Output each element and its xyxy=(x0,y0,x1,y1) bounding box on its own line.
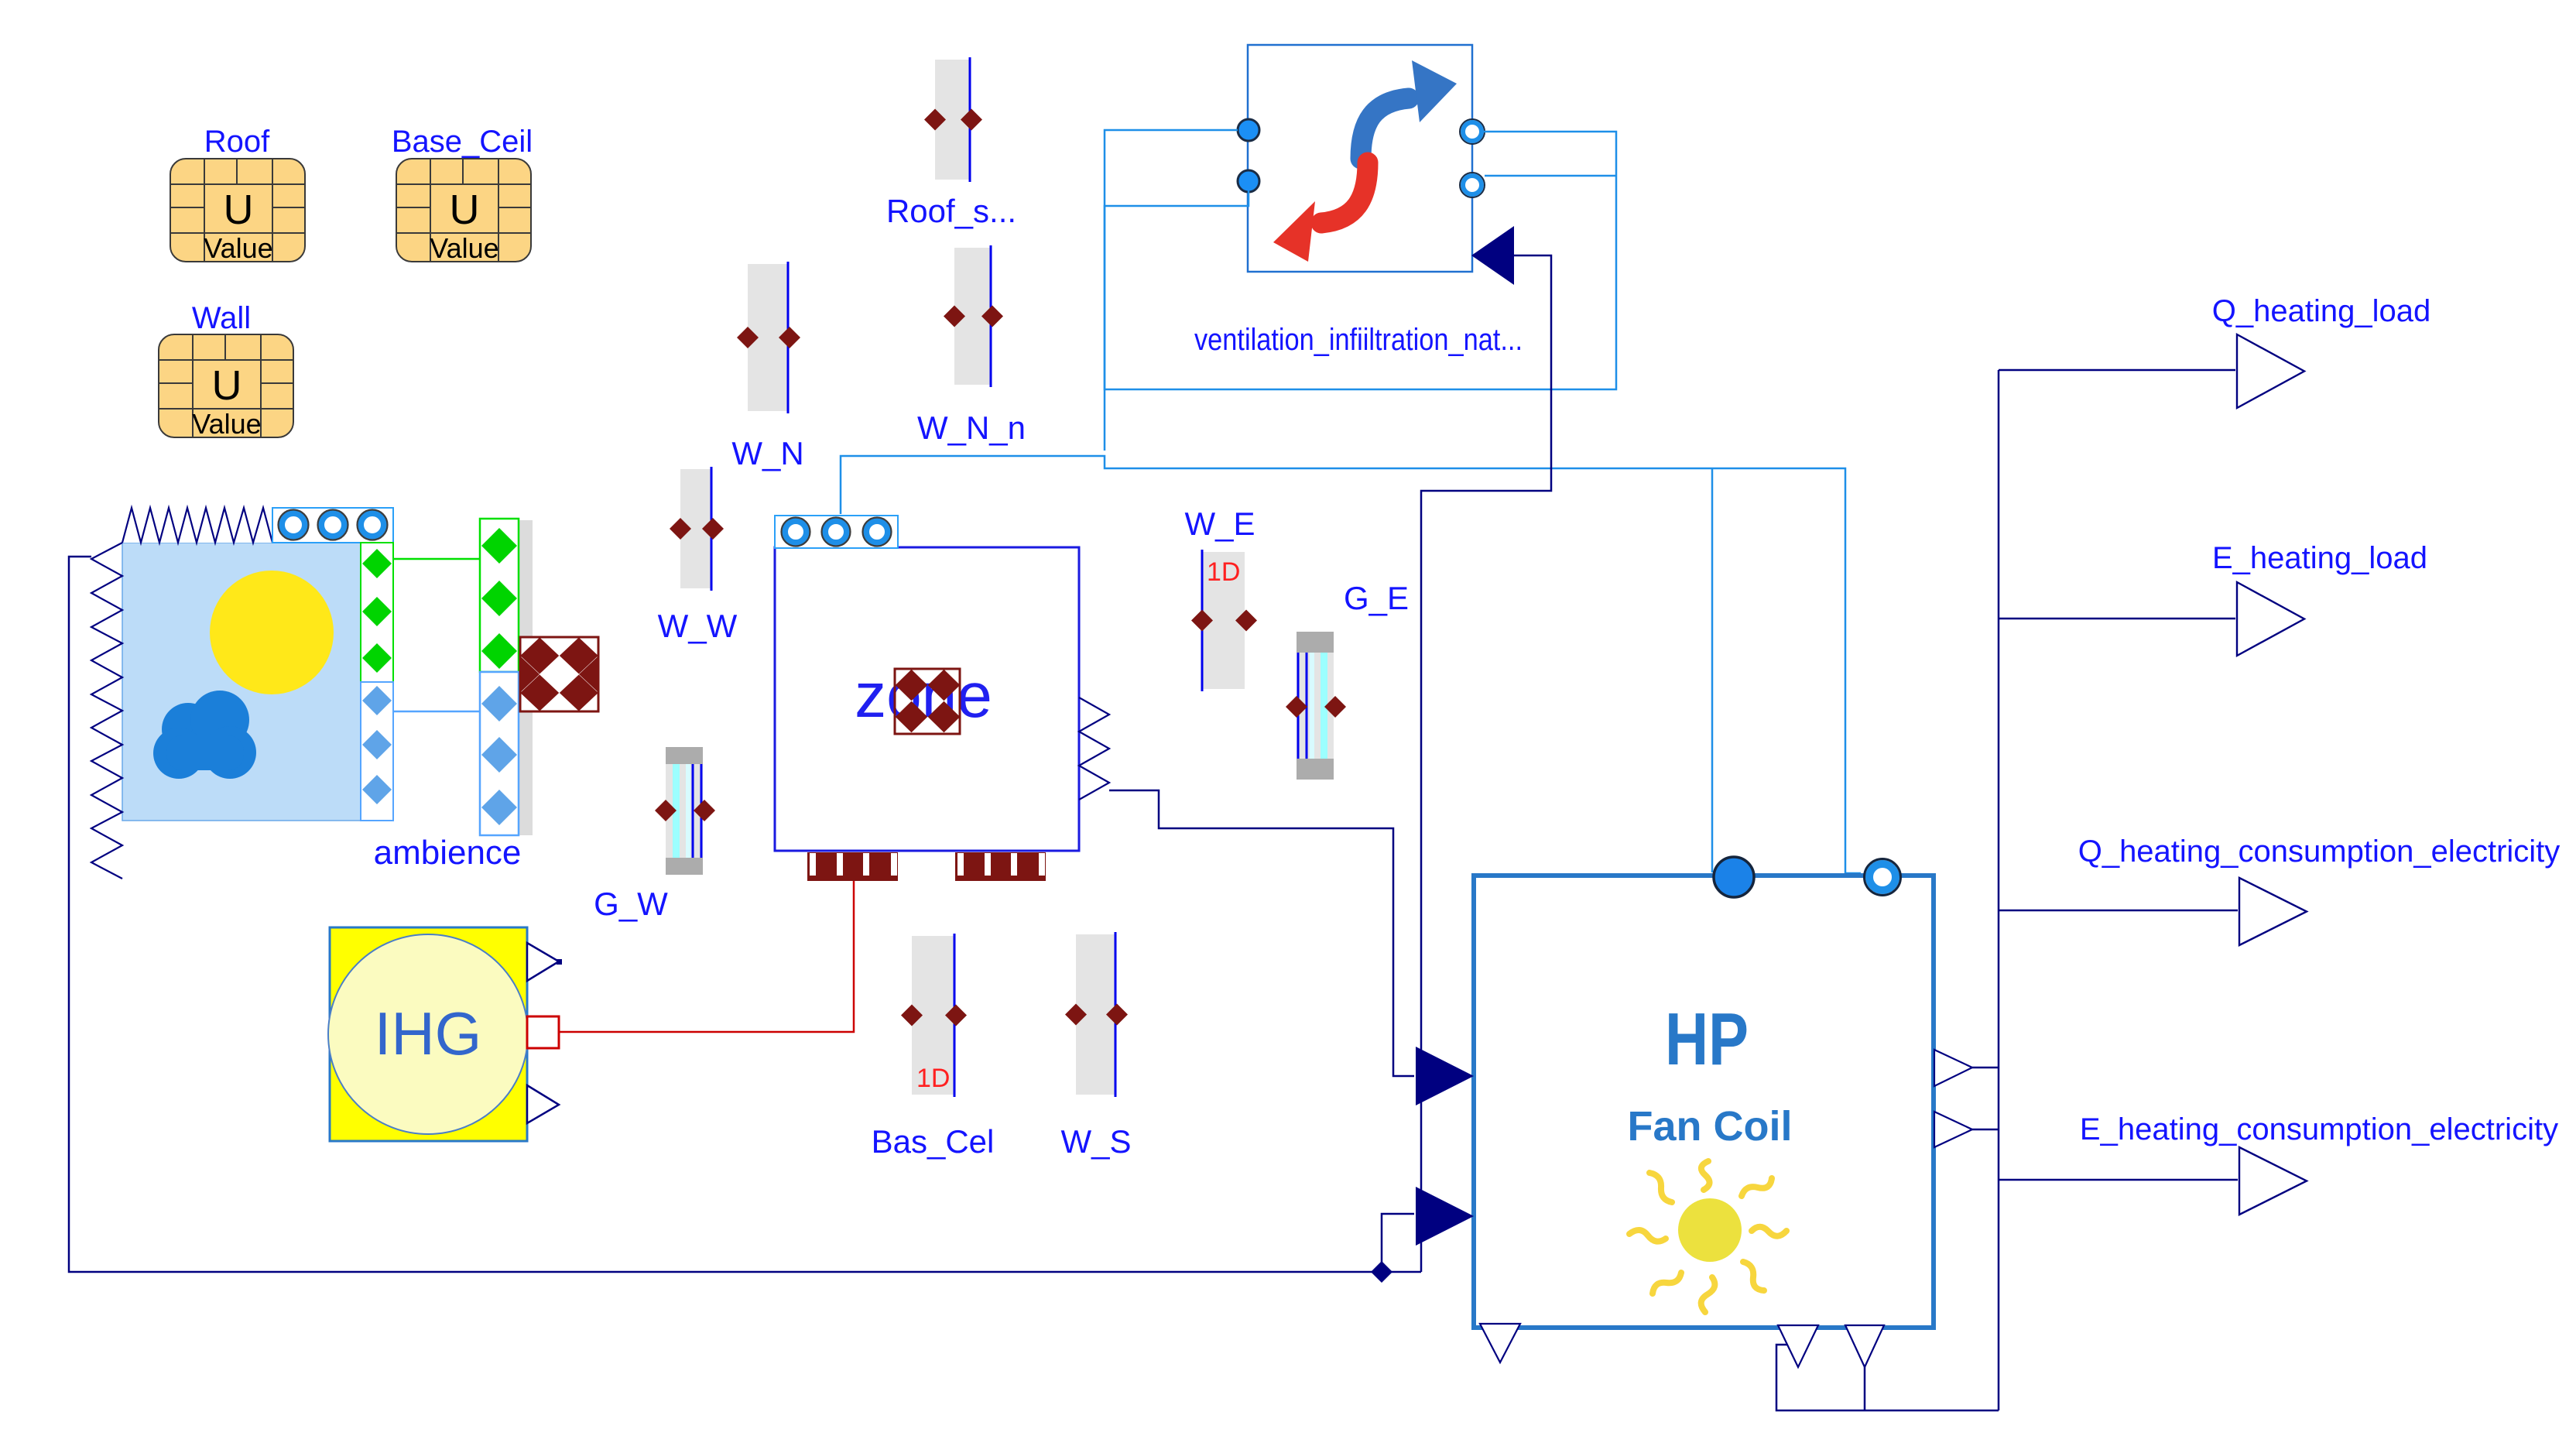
wall element W_E xyxy=(1191,550,1257,691)
vent left port 2 (filled circle) xyxy=(1238,170,1259,192)
radiation checker block xyxy=(501,637,618,711)
wire navy ambience long loop xyxy=(69,557,1421,1272)
weather block ambience xyxy=(91,508,393,879)
svg-text:HP: HP xyxy=(1665,998,1749,1081)
ventilation block xyxy=(1248,45,1472,272)
svg-text:G_E: G_E xyxy=(1344,580,1409,616)
ambience sun xyxy=(210,571,334,694)
svg-text:Bas_Cel: Bas_Cel xyxy=(872,1123,995,1160)
internal heat gains block IHG xyxy=(328,927,528,1141)
vent blue arrow xyxy=(1361,98,1409,159)
output arrow Q_heating_load xyxy=(2237,334,2304,408)
radiation distributor gray band xyxy=(519,520,533,835)
thermal zone block xyxy=(775,547,1079,851)
zone floor comb right xyxy=(955,852,1046,881)
svg-text:U: U xyxy=(450,187,480,233)
svg-text:U: U xyxy=(212,362,242,409)
wire lightblue vent right port1 loop xyxy=(1105,130,1616,389)
table Base_Ceil (U-Value CombiTable) xyxy=(396,159,531,264)
wire lightblue zone air port bus to HP xyxy=(841,456,1861,873)
vent red arrow xyxy=(1321,163,1368,223)
vent right port 2 (open circle) xyxy=(1463,176,1482,194)
window G_W xyxy=(655,747,715,875)
svg-text:Roof_s...: Roof_s... xyxy=(886,193,1016,229)
IHG output triangle bottom xyxy=(527,1085,559,1123)
wire lightblue vent left port2 down xyxy=(1105,190,1249,451)
svg-text:Q_heating_consumption_electric: Q_heating_consumption_electricity xyxy=(2078,835,2561,869)
vent right port 1 (open circle) xyxy=(1463,122,1482,141)
svg-text:U: U xyxy=(224,187,254,233)
distributor long-wave strip (blue diamonds) xyxy=(480,672,519,835)
wire navy to Q_heating_load xyxy=(1999,369,2235,372)
HP right output triangle 1 xyxy=(1934,1050,1972,1086)
ambience cloud xyxy=(153,691,256,779)
svg-text:E_heating_load: E_heating_load xyxy=(2212,541,2427,575)
wire navy branch to HP input2 xyxy=(1382,1214,1414,1272)
wire navy vent triangle down xyxy=(1421,255,1551,1272)
wire lightblue branch to HP supply circle xyxy=(1711,468,1714,872)
HP right output triangle 2 xyxy=(1934,1112,1972,1147)
wire navy to Q_heating_consumption xyxy=(1999,910,2238,912)
wire red IHG to zone xyxy=(559,881,854,1032)
svg-text:1D: 1D xyxy=(1207,557,1240,587)
wire navy to E_heating_consumption xyxy=(1999,1179,2238,1181)
svg-text:W_N: W_N xyxy=(731,435,803,471)
wire navy HP bottom triangle3 stub xyxy=(1864,1367,1866,1410)
table Wall (U-Value CombiTable) xyxy=(159,334,293,440)
wire navy zone to HP input1 xyxy=(1109,790,1414,1076)
svg-text:Roof: Roof xyxy=(204,125,270,159)
svg-text:IHG: IHG xyxy=(375,999,482,1068)
wire navy output bus vertical xyxy=(1998,370,2000,1410)
wire navy HP right out1 xyxy=(1972,1067,1999,1069)
ambience air-port box with 3 circles xyxy=(272,508,393,543)
wall element Roof_s xyxy=(924,57,982,182)
vent input triangle (navy, points left) xyxy=(1471,226,1514,285)
svg-text:W_W: W_W xyxy=(658,608,738,644)
svg-text:Wall: Wall xyxy=(192,301,251,335)
ambience top zigzag xyxy=(122,508,272,543)
svg-text:Q_heating_load: Q_heating_load xyxy=(2212,294,2430,328)
svg-text:Value: Value xyxy=(430,232,498,264)
svg-text:Base_Ceil: Base_Ceil xyxy=(392,125,533,159)
svg-text:Value: Value xyxy=(192,408,261,440)
heat pump block HP xyxy=(1474,876,1934,1328)
HP bottom triangle 2 xyxy=(1778,1325,1818,1367)
IHG output triangle top xyxy=(527,943,559,981)
window G_E xyxy=(1286,632,1346,780)
output arrow E_heating_consumption_electricity xyxy=(2239,1147,2307,1215)
wire navy HP right out2 xyxy=(1972,1129,1999,1131)
svg-text:G_W: G_W xyxy=(594,886,668,922)
vent left port 1 (filled circle) xyxy=(1238,119,1259,141)
output arrow E_heating_load xyxy=(2237,582,2304,656)
wall element W_W xyxy=(670,467,724,591)
wall element W_N_n xyxy=(944,245,1003,387)
ambience left zigzag xyxy=(91,543,122,879)
HP input triangle 2 (filled navy) xyxy=(1416,1187,1474,1246)
svg-text:1D: 1D xyxy=(916,1064,950,1093)
zone right zigzag port xyxy=(1079,697,1109,800)
HP sun icon xyxy=(1678,1198,1742,1262)
wall element Bas_Cel xyxy=(901,934,967,1097)
HP top port return (open circle) xyxy=(1869,864,1896,890)
svg-text:E_heating_consumption_electric: E_heating_consumption_electricity xyxy=(2080,1112,2558,1146)
svg-text:ventilation_infiiltration_nat.: ventilation_infiiltration_nat... xyxy=(1194,323,1523,357)
output arrow Q_heating_consumption_electricity xyxy=(2239,878,2307,945)
wire blue ambience to distributor xyxy=(393,711,480,713)
junction diamond xyxy=(1371,1261,1392,1283)
wall element W_N xyxy=(737,262,800,413)
wall element W_S xyxy=(1065,932,1128,1097)
zone air-port box with 3 circles xyxy=(775,516,898,548)
ambience short-wave port strip (green diamonds) xyxy=(361,543,393,682)
wire lightblue vent right port2 stub xyxy=(1485,175,1616,177)
zone floor comb left xyxy=(807,852,898,881)
svg-text:Fan Coil: Fan Coil xyxy=(1628,1103,1793,1150)
svg-text:Value: Value xyxy=(204,232,272,264)
wire navy HP bottom loop xyxy=(1776,1345,1999,1410)
zone checker icon xyxy=(895,669,960,734)
table Roof (U-Value CombiTable) xyxy=(170,159,305,264)
HP bottom triangle 3 xyxy=(1845,1325,1884,1367)
svg-text:W_N_n: W_N_n xyxy=(917,410,1026,446)
ambience long-wave port strip (blue diamonds) xyxy=(361,682,393,821)
IHG red heat port square xyxy=(527,1016,559,1048)
wire green ambience to distributor xyxy=(393,558,480,560)
HP top port supply (filled circle) xyxy=(1714,857,1754,897)
distributor short-wave strip (green diamonds) xyxy=(480,519,519,672)
HP input triangle 1 (filled navy) xyxy=(1416,1047,1474,1105)
svg-text:W_S: W_S xyxy=(1060,1123,1131,1160)
wire navy to E_heating_load xyxy=(1999,618,2235,620)
svg-text:W_E: W_E xyxy=(1184,506,1255,542)
HP bottom triangle 1 xyxy=(1480,1324,1520,1362)
svg-text:ambience: ambience xyxy=(374,834,522,872)
